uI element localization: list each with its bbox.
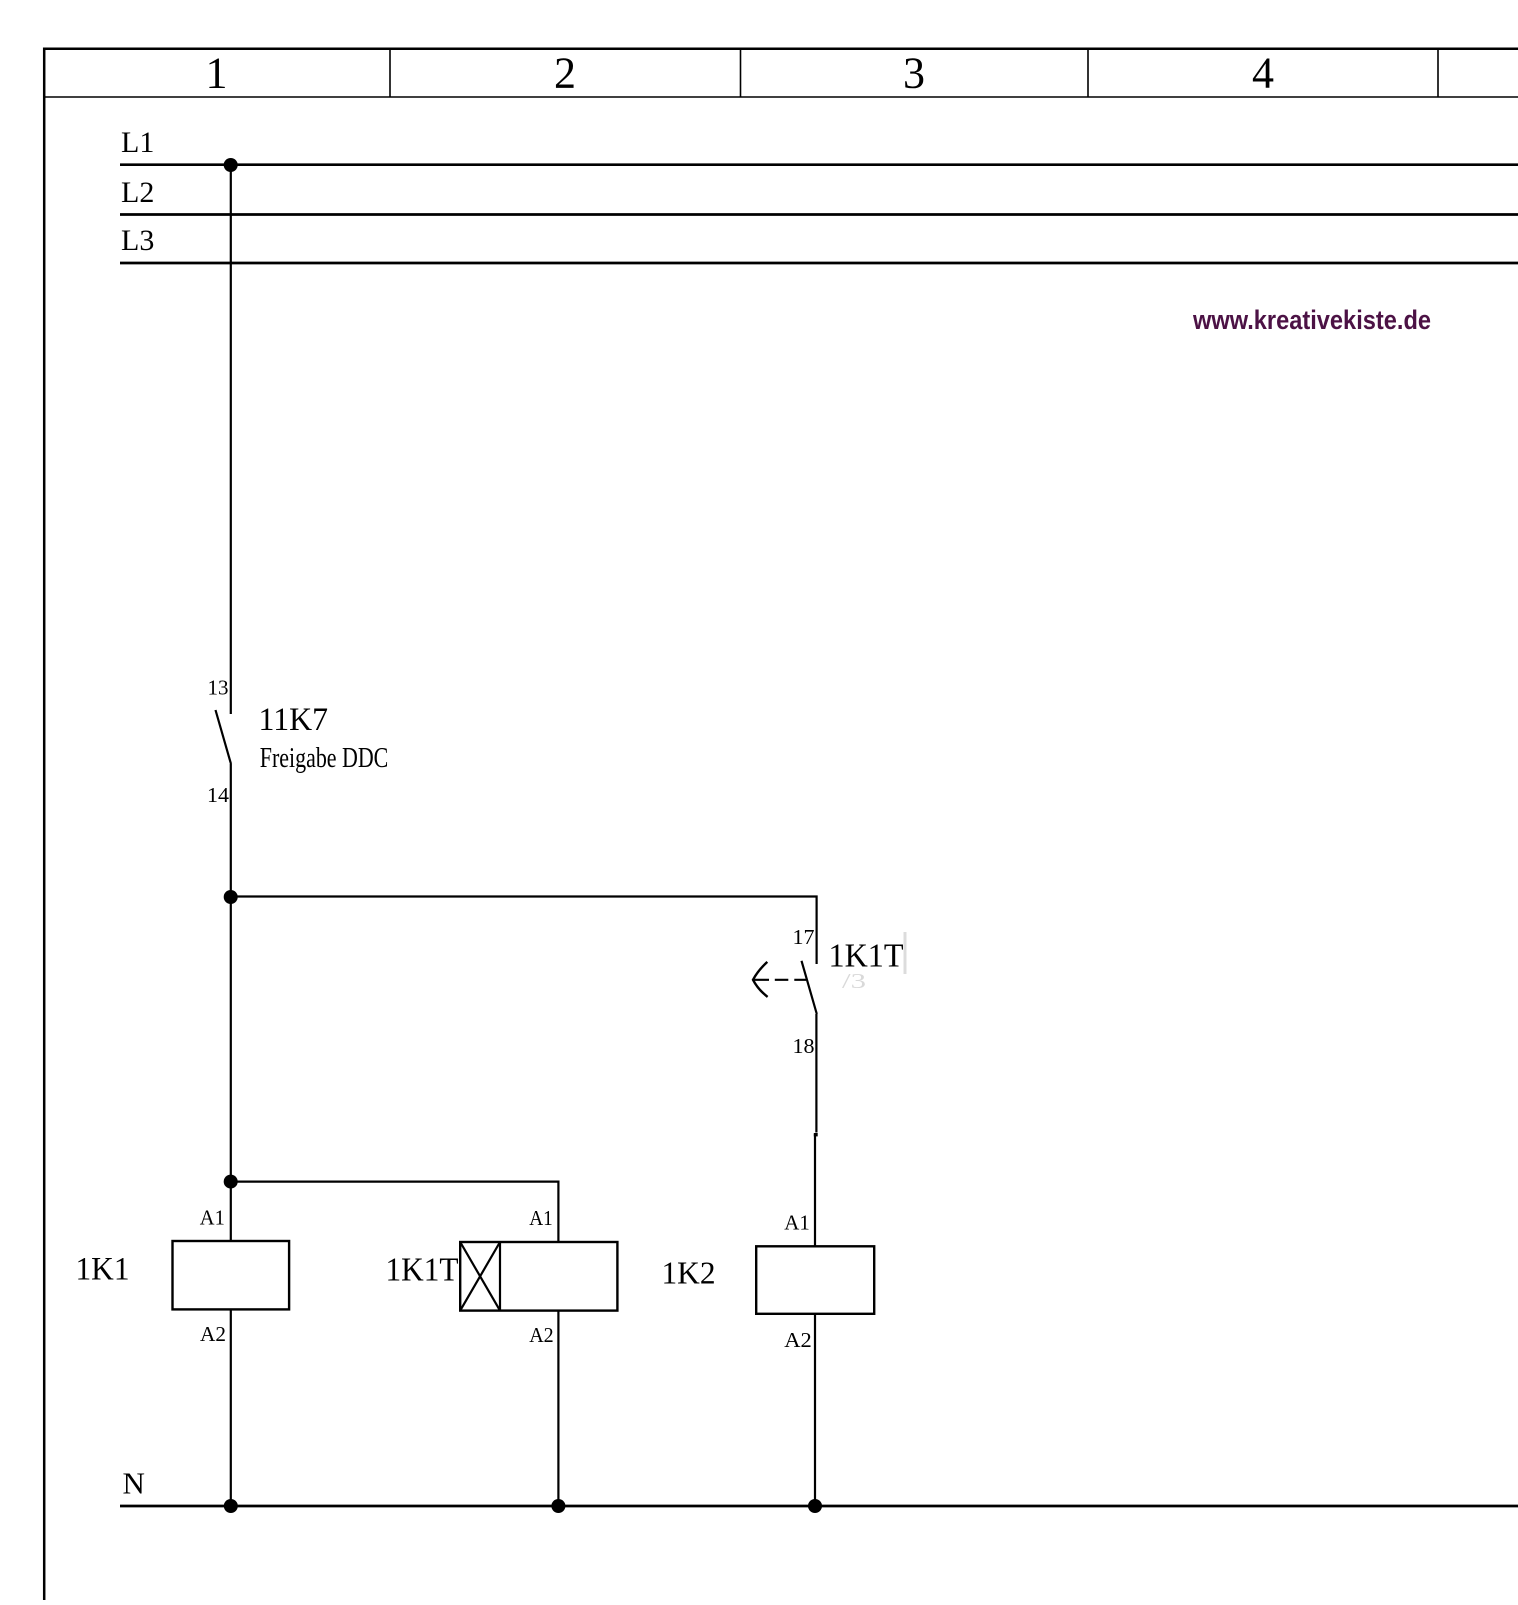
timer contact 1K1T blade [802,961,817,1014]
junction N coil 1K1 [224,1499,238,1513]
column divider 1|2 [389,48,391,97]
column divider 4|5 [1437,48,1439,97]
svg-text:13: 13 [208,676,229,700]
svg-text:1K2: 1K2 [662,1255,716,1291]
ghost erased stroke [904,932,907,974]
rail N wire [120,1505,1518,1508]
svg-text:A1: A1 [200,1205,225,1229]
rail L3 wire [120,262,1518,265]
frame left border [43,48,46,1601]
junction N coil 1K2 [808,1499,822,1513]
coil 1K1T timer body [460,1242,617,1311]
svg-text:A1: A1 [784,1210,810,1234]
off-delay arrow dashed shaft [754,979,807,981]
coil 1K1T timer X cell divider [499,1242,501,1311]
junction node branch to 1K1T contact [224,890,238,904]
rail L1 wire [120,163,1518,166]
svg-text:18: 18 [793,1034,815,1058]
coil 1K1T timer X diagonal 2 [460,1242,500,1311]
svg-text:1K1T: 1K1T [829,938,904,975]
junction N coil 1K1T [551,1499,565,1513]
wire branch right to coil 1K1T [231,1182,559,1242]
svg-text:1: 1 [206,49,228,98]
svg-text:L3: L3 [121,224,154,257]
frame top border [43,48,1518,51]
wire coil 1K1T to N [557,1311,559,1506]
svg-text:A2: A2 [784,1328,812,1352]
svg-text:Freigabe DDC: Freigabe DDC [260,742,389,774]
svg-text:3: 3 [903,49,925,98]
wire pin 14 down to node row 2 [230,764,232,1182]
svg-text:A1: A1 [529,1206,553,1230]
svg-text:N: N [123,1466,145,1501]
coil 1K2 [756,1246,874,1314]
wire branch right to timer contact [231,897,817,965]
junction node branch to coil 1K1T [224,1175,238,1189]
column divider 3|4 [1087,48,1089,97]
svg-text:2: 2 [554,49,576,98]
contact 11K7 blade [216,710,232,764]
svg-text:4: 4 [1252,49,1274,98]
svg-text:11K7: 11K7 [259,702,329,738]
off-delay arrow head arc [753,962,768,997]
wire L1 down to contact 11K7 pin 13 [230,165,232,714]
svg-text:L2: L2 [121,176,154,209]
svg-text:A2: A2 [200,1322,226,1346]
svg-text:/3: /3 [842,969,866,993]
wire pin 18 down [815,1014,817,1133]
column divider 2|3 [740,48,742,97]
junction L1 tap [224,158,238,172]
rail L2 wire [120,213,1518,216]
svg-text:14: 14 [207,783,229,807]
wire jog lower segment to coil 1K2 [814,1134,816,1246]
wire coil 1K2 to N [814,1314,816,1506]
wire node to coil 1K1 [230,1182,232,1241]
svg-text:17: 17 [793,925,815,949]
svg-text:1K1: 1K1 [76,1252,130,1288]
coil 1K1T timer X diagonal 1 [460,1242,500,1311]
svg-text:L1: L1 [121,126,154,159]
svg-text:A2: A2 [529,1323,554,1347]
wire jog to coil 1K2 column [814,1133,818,1136]
coil 1K1 [173,1241,290,1309]
svg-text:www.kreativekiste.de: www.kreativekiste.de [1192,305,1431,335]
svg-text:1K1T: 1K1T [386,1252,459,1289]
header row bottom line [43,96,1518,98]
wire coil 1K1 to N [230,1309,232,1506]
